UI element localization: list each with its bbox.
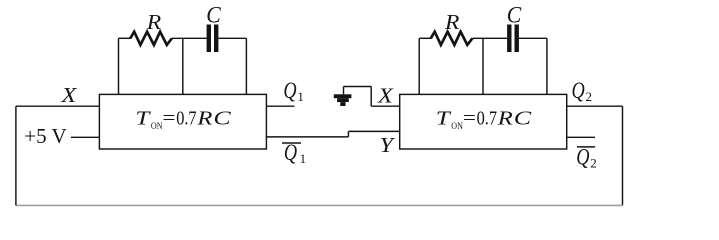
svg-text:=: = [463,107,476,129]
wire: U1 RC loop right vertical [245,38,247,94]
wire: trigger drop to X net [370,87,372,107]
wire: Q2 output to feedback [567,105,623,107]
wire: trigger horizontal over [344,86,372,88]
svg-text:2: 2 [586,89,593,104]
svg-text:R: R [444,10,460,34]
wire: Q1-bar output to step [266,136,348,138]
wire: U2 top wire middle segment [473,37,508,39]
node Q2 label [572,78,593,104]
wire: U2 RC loop right vertical [546,38,548,94]
svg-text:R: R [146,10,162,34]
push-button trigger symbol (to U2 X input) [334,94,352,106]
svg-text:1: 1 [297,89,304,104]
wire: U1 RC loop left vertical [118,38,120,94]
wire: U1 top wire middle segment [172,37,207,39]
wire: feedback bottom horizontal [16,204,623,206]
wire: U2 RC loop middle vertical (R-C junction to box top) [482,38,484,94]
wire: feedback left vertical (up to X input) [15,106,17,205]
svg-text:0.7: 0.7 [477,107,497,129]
U1 value label T_ON=0.7RC [135,107,231,132]
wire: U2 top wire right segment [519,37,547,39]
svg-text:C: C [507,3,522,28]
svg-text:Q: Q [284,140,297,166]
wire: Y input into U2 [348,130,399,132]
svg-text:+5 V: +5 V [24,124,66,148]
wire: trigger button top lead [343,87,345,95]
svg-text:R: R [497,107,513,129]
capacitor C (U1) [207,25,219,53]
wire: U1 top wire right segment [218,37,246,39]
wire: Q2-bar output stub [567,136,595,138]
one-shot block U2 box (T_ON=0.7RC) [400,94,567,149]
resistor R (U1) [130,32,172,45]
wire: U1 top wire left segment [119,37,131,39]
node Q1 label [283,78,304,104]
svg-text:C: C [514,107,532,129]
svg-text:Q: Q [283,78,296,104]
svg-text:0.7: 0.7 [176,107,196,129]
svg-text:C: C [206,3,221,28]
one-shot block U1 box (T_ON=0.7RC) [99,94,266,149]
svg-text:ON: ON [151,122,163,132]
svg-text:X: X [377,83,394,107]
wire: feedback right vertical (Q2 down) [622,106,624,205]
svg-text:C: C [213,107,231,129]
svg-text:Q: Q [572,78,585,104]
wire: +5V to U1 [71,136,100,138]
svg-text:Q: Q [576,145,589,171]
svg-text:X: X [60,83,77,107]
svg-text:=: = [162,107,175,129]
node Q2-bar label [576,145,597,171]
wire: X input into U2 [371,105,400,107]
resistor R (U2) [431,32,473,45]
wire: step vertical on Q1-bar to Y net [347,131,349,137]
svg-text:T: T [135,107,151,129]
svg-text:Y: Y [380,133,396,157]
node Q1-bar label [282,140,306,166]
svg-text:2: 2 [590,156,597,171]
capacitor C (U2) [507,25,519,53]
svg-text:ON: ON [451,122,463,132]
U2 value label T_ON=0.7RC [436,107,532,132]
wire: U1 RC loop middle vertical (R-C junction to box top) [182,38,184,94]
wire: X input to U1 [16,105,100,107]
svg-text:T: T [436,107,452,129]
wire: U2 RC loop left vertical [418,38,420,94]
svg-text:1: 1 [300,151,307,166]
wire: Q1 output stub [266,105,294,107]
svg-text:R: R [196,107,212,129]
wire: U2 top wire left segment [419,37,431,39]
